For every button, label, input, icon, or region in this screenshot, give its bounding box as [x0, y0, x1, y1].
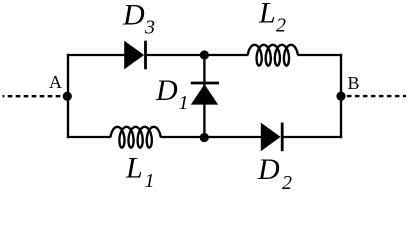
svg-text:D: D — [122, 0, 145, 32]
svg-text:1: 1 — [179, 92, 189, 114]
wire middle vertical — [203, 55, 205, 138]
node B — [336, 92, 345, 101]
svg-text:A: A — [49, 72, 62, 92]
svg-text:1: 1 — [145, 170, 155, 192]
svg-text:B: B — [348, 73, 360, 93]
wire bottom rail right segment — [282, 136, 342, 138]
diode D1 — [191, 83, 219, 105]
diode D2 — [261, 123, 282, 152]
wire right vertical — [340, 54, 342, 138]
diode D3 — [124, 41, 145, 70]
node top middle junction — [200, 50, 209, 59]
wire right dashed lead — [346, 95, 406, 97]
node A — [63, 92, 72, 101]
inductor L1 coil — [111, 127, 161, 148]
wire bottom rail middle segment — [160, 136, 261, 138]
svg-text:2: 2 — [282, 172, 292, 193]
svg-text:L: L — [125, 152, 143, 185]
node bottom middle junction — [200, 133, 209, 142]
svg-text:D: D — [257, 153, 280, 186]
wire left vertical — [67, 54, 69, 138]
svg-text:3: 3 — [144, 17, 155, 39]
svg-text:D: D — [155, 74, 178, 107]
wire top rail left segment — [67, 54, 125, 56]
inductor L2 coil — [248, 45, 298, 66]
wire top rail middle segment — [145, 54, 248, 56]
wire left dashed lead — [3, 95, 64, 97]
svg-text:2: 2 — [276, 15, 286, 37]
wire bottom rail left segment — [67, 136, 111, 138]
svg-text:L: L — [258, 0, 276, 30]
wire top rail right segment — [298, 54, 343, 56]
